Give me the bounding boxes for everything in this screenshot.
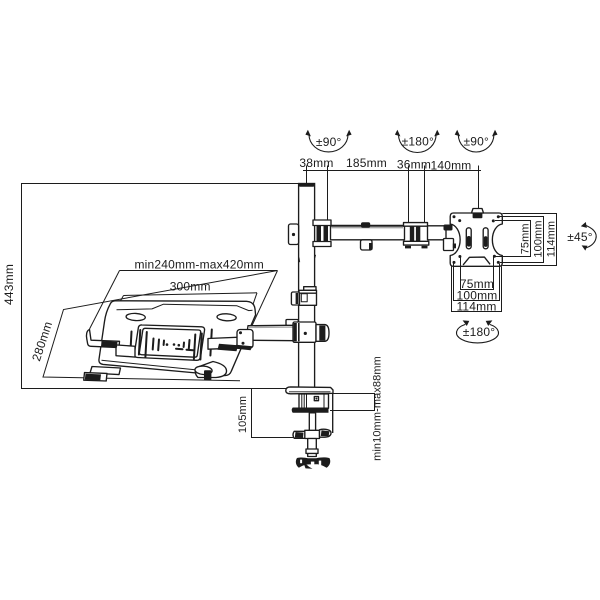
svg-text:±45°: ±45° — [567, 230, 593, 244]
svg-text:300mm: 300mm — [170, 280, 211, 294]
svg-text:±90°: ±90° — [464, 135, 490, 149]
svg-text:114mm: 114mm — [456, 300, 496, 314]
svg-text:100mm: 100mm — [532, 220, 544, 257]
svg-text:105mm: 105mm — [237, 396, 249, 433]
svg-text:36mm: 36mm — [397, 158, 431, 172]
svg-text:38mm: 38mm — [299, 156, 333, 170]
svg-text:±90°: ±90° — [316, 135, 342, 149]
svg-text:min10mm-max88mm: min10mm-max88mm — [372, 356, 384, 461]
svg-text:75mm: 75mm — [519, 223, 531, 254]
svg-text:min240mm-max420mm: min240mm-max420mm — [134, 258, 263, 272]
svg-text:443mm: 443mm — [2, 264, 16, 305]
svg-text:±180°: ±180° — [463, 325, 495, 339]
svg-text:±180°: ±180° — [402, 135, 434, 149]
svg-text:185mm: 185mm — [346, 156, 387, 170]
svg-text:140mm: 140mm — [430, 159, 471, 173]
svg-text:114mm: 114mm — [545, 221, 557, 257]
